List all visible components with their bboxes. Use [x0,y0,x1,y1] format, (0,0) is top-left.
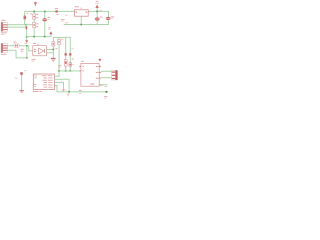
label U1 above [75,6,83,8]
wire V2 x59 [58,37,61,76]
regulator U1 [75,10,89,16]
wire rail2 [53,36,71,39]
label near ground branch [15,77,18,80]
junction dot V2 y70.9 [58,70,60,72]
label above ground branch [24,69,27,72]
connector J3 [1,43,8,52]
connector J2 [112,70,118,80]
label above U3 [81,61,84,62]
wire vertical branch x24.6 left corner [23,11,26,24]
label R1 [36,14,38,18]
connector J1 [1,22,8,31]
wire U3 to J2 pin2 [101,76,112,79]
ground under V1 [51,58,56,62]
capacitor C3 [106,17,111,20]
resistor R2 [33,22,36,27]
wire rail3 bottom left [16,56,27,59]
wire vertical x57 [56,85,59,91]
power arrow +5V x50.9 [49,31,52,36]
label chainC [71,48,73,65]
label fuse [55,8,68,16]
wire net to U3 left [59,70,79,73]
wire connector J1 pin2 net (wireB) [8,26,26,29]
driver U3 [79,63,101,86]
wire opto output bottom [47,51,54,54]
label U2 above [33,43,39,45]
junction dot x97 top wire [96,11,98,13]
junction dot rail1 x34.2 [33,36,35,38]
label C1 [48,17,50,20]
ground terminal under x26.6 [25,40,29,44]
label power x97 [95,1,99,4]
label faint above right [100,85,103,86]
wire J3 pin3 net [8,50,17,58]
wire ground branch x21.6 [20,75,23,90]
wire top main horizontal net [25,10,75,13]
capacitor C1 [42,18,47,21]
label above bottom net [62,89,67,90]
junction dot V1 y49.4 [53,49,55,51]
capacitor C1 branch [43,11,46,36]
resistor chain stub from top wire [33,11,36,36]
terminal dot end of bottom net [106,91,108,93]
wire MCU pin stub1 y76.2 [55,75,60,78]
junction dot top wire x34.2 [33,11,35,13]
label below net end dot [104,96,107,99]
label near pin4 wire [105,85,108,88]
label D1 [26,13,31,14]
wire vertical x26.8 [25,46,28,58]
junction dot x69 y91.8 [68,91,70,93]
junction dot chainB y70.9 [65,70,67,72]
junction dot rail1 x26.6 [26,36,28,38]
wire lower input net y45.7 [8,44,29,47]
wire vertical x26.6 to rail1 [25,30,28,41]
wire regulator ground stub [80,16,83,25]
wire connector J1 pin1 net (wireA) [8,23,33,26]
label U2 below [32,59,36,62]
wire long bottom net y91.8 [57,90,107,93]
label R4 [61,39,64,40]
junction dot rail x81.2 [80,24,82,26]
wire chainB x65.6 [64,37,67,71]
wire vertical x63.5 [62,82,65,92]
junction dot wireA x25.9 [25,24,27,26]
label mid bottom net [79,90,82,94]
label above J1 [1,20,5,21]
wire MCU pin stub4 y85.4 [55,84,58,87]
wire jog into U2 [28,46,33,52]
label C3 [111,16,114,19]
no-connect diamond above U3 [99,58,102,61]
wire opto output top [47,48,54,51]
component blob chainC [69,53,71,56]
wire V1 x53.3 [52,37,55,58]
label power arrow [48,27,50,30]
wire U3 to J2 pin1 [101,70,112,73]
junction dot chainC y70.9 [69,70,71,72]
ground symbol x21.6 [20,90,24,93]
junction dot x26.8 y45.7 [26,45,28,47]
wire chainC x70.2 [69,37,72,71]
led DB chainB [64,59,67,66]
resistor R3 [52,42,55,46]
label above rail mid [65,21,68,24]
resistor R1 [33,14,36,19]
wire MCU pin stub3 y82.3 [55,81,64,84]
diode D1 [24,16,27,20]
wire regulator output net [88,10,109,13]
optocoupler U2 [33,46,47,56]
label D2 [13,42,23,52]
power symbol top x35.4 [34,2,37,6]
ground branch terminal top x21.6 [20,72,23,75]
power arrow x97 [95,5,98,8]
component blob chainB [65,53,67,56]
label below J1 [1,32,7,35]
label R2 [36,23,38,27]
label below J3 [1,54,6,55]
wire vertical x69 [68,79,71,92]
label C2 [99,10,102,18]
junction dot top wire x44.7 [44,11,46,13]
label left of rail [61,19,65,22]
marks below bottom net [67,94,69,97]
fuse F1 on top wire [55,10,57,12]
wire ground rail top right [64,23,109,26]
junction dot x26.8 y57.8 [26,57,28,59]
label below leds [58,65,61,68]
junction dot rail1 x44.7 [44,36,46,38]
diode D2 inline [14,44,19,47]
diode D3 vertical [26,26,28,30]
capacitor C2 [95,17,100,20]
label U4 below [33,91,42,92]
led DC chainC [69,63,72,67]
wire +5V branch x97 [96,8,99,25]
MCU U4 [33,74,54,90]
wire MCU pin stub2 y79.2 [55,78,70,81]
resistor R4 [58,40,61,45]
wire rail1 [26,35,51,38]
label V1 [55,48,57,49]
wire U3 pin4 net [99,83,107,86]
wire corner branch x108.5 [107,11,110,24]
